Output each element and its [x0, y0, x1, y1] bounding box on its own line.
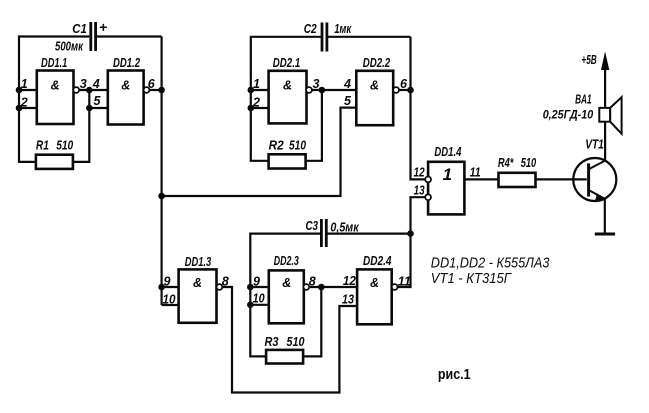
svg-text:DD1.2: DD1.2	[113, 55, 141, 70]
inversion bubble DD2.4 output pin 11	[392, 284, 398, 290]
NAND gate DD2.2	[356, 71, 393, 125]
NAND gate DD2.1	[269, 71, 307, 124]
svg-text:&: &	[121, 79, 130, 93]
inversion bubble DD1.4 input pin 12	[425, 177, 431, 183]
svg-text:&: &	[370, 79, 379, 93]
inversion bubble DD2.3 output pin 8	[303, 284, 309, 290]
junction: pin 6 osc2 joins vertical	[407, 87, 414, 94]
svg-text:DD1.4: DD1.4	[434, 144, 462, 159]
inversion bubble DD1.4 input pin 13	[425, 194, 431, 200]
svg-text:C3: C3	[306, 218, 319, 233]
svg-text:2: 2	[20, 95, 28, 109]
svg-text:3: 3	[80, 77, 87, 91]
svg-text:&: &	[283, 79, 292, 93]
junction: node C	[318, 284, 325, 291]
node C: DD2.3 out to DD2.4 pin12, down to R3 right	[303, 287, 357, 356]
NAND gate DD2.4	[357, 269, 392, 324]
resistor R1	[36, 155, 73, 169]
svg-text:рис.1: рис.1	[438, 367, 471, 383]
svg-text:+: +	[99, 19, 107, 35]
NAND gate DD1.3	[179, 269, 217, 322]
ground	[595, 233, 615, 236]
wire: C3 right plate to DD2.4 output net	[328, 233, 411, 235]
svg-text:0,25ГД-10: 0,25ГД-10	[543, 108, 594, 122]
svg-text:DD2.4: DD2.4	[363, 253, 392, 268]
wire: DD1.4 pin 11 output to R4	[464, 178, 498, 180]
svg-text:1мк: 1мк	[334, 21, 352, 36]
resistor R3	[266, 350, 303, 364]
svg-text:12: 12	[343, 274, 356, 288]
svg-text:510: 510	[521, 155, 537, 170]
inversion bubble DD1.3 output pin 8	[217, 284, 223, 290]
svg-text:R2: R2	[269, 137, 285, 152]
svg-text:&: &	[282, 276, 291, 290]
junction: node B	[319, 87, 326, 94]
svg-text:DD2.1: DD2.1	[273, 55, 301, 70]
svg-text:11: 11	[470, 166, 481, 180]
wire: osc2 output net vertical to DD1.4 pin 12	[411, 37, 426, 180]
wire: C1 right plate to DD1.2 output net	[97, 35, 162, 37]
svg-text:13: 13	[414, 184, 425, 198]
junction: pin 6 joins output vertical	[158, 87, 165, 94]
svg-text:6: 6	[148, 77, 156, 91]
svg-text:C1: C1	[72, 21, 87, 36]
svg-text:&: &	[370, 276, 379, 290]
svg-text:9: 9	[164, 274, 171, 288]
svg-text:6: 6	[400, 77, 408, 91]
resistor R2	[269, 154, 306, 168]
inversion bubble DD1.1 output pin 3	[73, 87, 79, 93]
NAND gate DD1.2	[108, 71, 144, 125]
NAND gate DD2.3	[269, 270, 304, 323]
svg-text:13: 13	[342, 293, 354, 307]
wire: DD1.3 pin 8 output down and along bottom to DD2.4 pin 13	[222, 287, 357, 393]
svg-text:R1: R1	[36, 137, 49, 152]
capacitor C3	[321, 219, 326, 247]
junction: DD1.3 pin 9 tap	[158, 284, 165, 291]
svg-text:&: &	[193, 276, 202, 290]
junction: DD2.1 pin 2	[248, 105, 255, 112]
wire: R4 to VT1 base	[536, 178, 587, 180]
inversion bubble DD2.2 output pin 6	[393, 87, 399, 93]
node B: DD2.1 out to DD2.2 in, down to R2 right	[306, 90, 357, 161]
inversion bubble DD1.2 output pin 6	[144, 87, 150, 93]
svg-text:DD1.1: DD1.1	[41, 55, 67, 70]
wire: DD2.4 pin 11 output up to DD1.4 pin 13	[398, 197, 426, 287]
junction: C3 taps output-11 net	[407, 230, 414, 237]
svg-text:0,5мк: 0,5мк	[330, 219, 359, 234]
svg-text:+5В: +5В	[581, 52, 596, 67]
svg-text:8: 8	[309, 274, 316, 288]
svg-text:VT1 - КТ315Г: VT1 - КТ315Г	[431, 271, 512, 287]
svg-text:4: 4	[343, 77, 351, 91]
svg-text:2: 2	[252, 95, 260, 109]
capacitor C2	[322, 23, 327, 52]
junction: DD2.3 pin 10	[247, 302, 254, 309]
junction: DD2.3 pin 9	[247, 284, 254, 291]
svg-text:9: 9	[253, 274, 260, 288]
svg-text:5: 5	[94, 94, 102, 108]
wire: osc1 output net vertical (C1 right, pin6, to DD1.3 inputs)	[162, 37, 179, 306]
resistor R4	[499, 173, 536, 187]
junction: DD2.1 pin 1	[248, 87, 255, 94]
svg-text:DD1,DD2 - К555ЛА3: DD1,DD2 - К555ЛА3	[431, 256, 550, 272]
transistor VT1	[573, 158, 616, 201]
svg-text:1: 1	[21, 77, 28, 91]
capacitor C1	[91, 22, 96, 51]
speaker BA1	[599, 97, 621, 134]
svg-text:510: 510	[287, 334, 306, 349]
svg-text:VT1: VT1	[585, 137, 604, 152]
svg-text:4: 4	[92, 77, 100, 91]
NAND gate DD1.1	[37, 71, 74, 125]
wire: DD2.2 pin 6 output	[399, 89, 411, 91]
wire: VT1 emitter down to ground	[604, 199, 606, 234]
wire: branch to DD2.2 pin 5	[162, 108, 357, 196]
svg-text:1: 1	[253, 77, 260, 91]
svg-text:510: 510	[56, 137, 74, 152]
node A: DD1.1 out to DD1.2 in, down to R1 right	[73, 90, 108, 162]
svg-text:DD2.2: DD2.2	[363, 55, 391, 70]
svg-text:DD2.3: DD2.3	[274, 253, 300, 268]
svg-text:510: 510	[289, 137, 307, 152]
gate DD1.4 (NAND drawn as negative-input OR)	[428, 162, 464, 215]
junction: node A pin3/pin4/R1	[86, 87, 93, 94]
inversion bubble DD2.1 output pin 3	[306, 87, 312, 93]
svg-text:1: 1	[443, 165, 452, 184]
svg-text:500мк: 500мк	[55, 39, 84, 54]
svg-text:C2: C2	[304, 21, 318, 36]
wire: osc1 feedback net (C1 left plate, DD1.1 pins 1-2, R1 left)	[19, 37, 89, 162]
wire: C2 right plate to DD2.2 output net	[328, 36, 410, 38]
junction: DD1.1 pin 2 on left net	[16, 105, 23, 112]
wire: gated osc3 left net (C3 left, DD2.3 pins 9-10, R3 left)	[250, 234, 320, 357]
svg-text:12: 12	[414, 166, 425, 180]
junction: DD1.1 pin 1 on left net	[16, 87, 23, 94]
wire: VT1 collector up to speaker	[604, 69, 606, 161]
svg-text:3: 3	[313, 77, 320, 91]
svg-text:R3: R3	[265, 334, 280, 349]
svg-text:10: 10	[253, 291, 265, 305]
svg-text:R4*: R4*	[498, 155, 514, 170]
svg-text:10: 10	[163, 293, 176, 307]
svg-text:&: &	[51, 79, 60, 93]
wire: osc2 feedback net (C2 left plate, DD2.1 pins 1-2, R2 left)	[251, 37, 321, 161]
svg-text:DD1.3: DD1.3	[185, 254, 212, 269]
junction: node A tap to DD1.2 pin 5	[86, 105, 93, 112]
junction: branch to DD2.2 pin 5	[158, 193, 165, 200]
svg-text:BA1: BA1	[575, 91, 592, 106]
wire: DD1.2 pin 6 output	[149, 89, 161, 91]
+5V supply arrow	[601, 52, 609, 71]
svg-text:5: 5	[344, 94, 352, 108]
